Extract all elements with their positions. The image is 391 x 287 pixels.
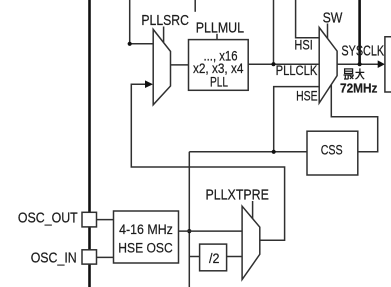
mux SW (system clock switch) (319, 28, 337, 104)
wire PLLMUL select stub from top (194, 0, 196, 12)
pad OSC_IN (82, 250, 97, 264)
block HSE OSC (114, 211, 179, 263)
label 最大 (max) glyph strokes (344, 68, 365, 79)
wire PLLSRC select (163, 27, 165, 43)
chip boundary (88, 0, 91, 287)
svg-text:/2: /2 (209, 250, 220, 266)
wire PLLXTPRE output to PLLSRC mux lower input (131, 84, 284, 240)
svg-text:PLLXTPRE: PLLXTPRE (206, 187, 269, 203)
svg-text:HSI: HSI (294, 37, 312, 53)
wire SYSCLK branch to top (thick) (358, 0, 361, 64)
node SYSCLK junction (358, 62, 362, 66)
block /2 divider (200, 244, 227, 271)
arrow SYSCLK into prescaler block (378, 60, 385, 68)
wire SYSCLK output (337, 63, 379, 65)
wire SW select (327, 24, 329, 39)
block prescaler (cut off at right edge) (385, 37, 391, 92)
svg-text:OSC_OUT: OSC_OUT (18, 210, 78, 226)
node HSE OSC output junction (187, 229, 191, 233)
wire /2 output to PLLXTPRE mux (227, 256, 243, 258)
wire PLLCLK branch to top (USB prescaler) (273, 0, 275, 64)
wire HSE to SW mux (274, 87, 320, 152)
wire HSE vertical rail (188, 152, 190, 287)
svg-text:PLL: PLL (210, 74, 228, 89)
svg-text:CSS: CSS (321, 142, 343, 158)
wire PLLMUL select to PLL box (216, 34, 218, 40)
svg-text:PLLCLK: PLLCLK (276, 62, 318, 78)
arrow into PLLSRC mux lower input (145, 80, 153, 88)
svg-text:OSC_IN: OSC_IN (31, 251, 77, 267)
wire HSE OSC output (179, 230, 243, 232)
wire PLLXTPRE select (252, 201, 254, 219)
wire tap to /2 divider (189, 256, 199, 258)
svg-text:SW: SW (323, 11, 343, 27)
pad OSC_OUT (82, 212, 97, 227)
wire HSI/2 input from top to PLLSRC mux (130, 0, 154, 44)
mux PLLSRC (153, 29, 170, 104)
block PLL (multiplier) (189, 40, 249, 91)
svg-text:PLLSRC: PLLSRC (141, 13, 189, 29)
node HSI/2 junction (128, 42, 132, 46)
wire HSE line to CSS (189, 151, 307, 153)
mux PLLXTPRE (242, 206, 260, 279)
wire OSC_IN pad to HSE OSC (97, 256, 114, 258)
wire PLLSRC mux output to PLL (171, 64, 189, 66)
svg-text:4-16 MHz: 4-16 MHz (119, 221, 173, 237)
svg-text:HSE OSC: HSE OSC (118, 239, 173, 255)
wire CSS feedback from SW mux bottom (331, 84, 377, 152)
wire PLLCLK from PLL output to SW mux (248, 63, 319, 65)
svg-text:PLLMUL: PLLMUL (196, 21, 244, 37)
wire OSC_OUT pad to HSE OSC (97, 219, 114, 221)
block CSS (307, 131, 358, 175)
wire HSI input from top to SW mux (296, 0, 320, 38)
svg-text:SYSCLK: SYSCLK (341, 44, 384, 60)
svg-text:72MHz: 72MHz (340, 80, 378, 95)
svg-text:HSE: HSE (296, 88, 318, 103)
node PLLCLK junction (271, 62, 275, 66)
node HSE/CSS junction (272, 150, 276, 154)
